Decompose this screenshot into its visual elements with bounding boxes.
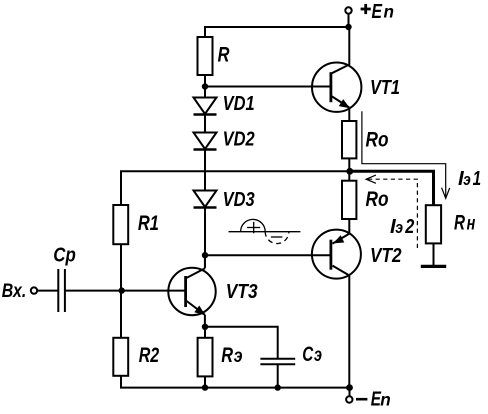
wire output node to Rn [350, 171, 434, 205]
label +En [361, 0, 394, 23]
svg-text:R: R [454, 212, 466, 235]
wire R2 bottom to rail [121, 376, 350, 388]
current arrow Ie1 [362, 111, 450, 198]
wire VT2 collector down to rail [348, 275, 350, 388]
svg-text:Ro: Ro [366, 128, 389, 151]
current arrow Ie2 dashed [366, 175, 417, 251]
svg-text:2: 2 [405, 215, 415, 238]
wire output node to Ro2 [348, 171, 350, 180]
wire node B to VT2 base [205, 254, 330, 256]
diode VD2 [194, 133, 217, 191]
capacitor Ce [260, 359, 295, 365]
wire Ro2 to VT2 emitter [348, 219, 350, 235]
diode VD1 [194, 98, 217, 133]
wire input node to R2 [120, 291, 122, 338]
wire +En node down to VT1 collector [348, 27, 350, 65]
capacitor Cp [58, 269, 65, 312]
svg-text:э: э [234, 346, 243, 367]
resistor Ro2 [342, 181, 356, 219]
svg-text:Ro: Ro [366, 188, 389, 211]
node B [202, 252, 208, 258]
wire input to VT3 base [37, 290, 58, 292]
resistor R1 [113, 205, 128, 244]
svg-text:R2: R2 [139, 344, 160, 367]
wire VT3 collector up to node B [204, 255, 206, 268]
node rail Re [202, 384, 208, 390]
label Ie2 [390, 215, 415, 238]
svg-text:э: э [314, 345, 322, 366]
resistor Rn [426, 205, 441, 243]
svg-text:VT1: VT1 [370, 77, 400, 99]
wire R bottom to node A [204, 75, 206, 98]
svg-text:n: n [380, 390, 391, 410]
terminal +En [345, 7, 351, 13]
svg-text:э: э [463, 170, 471, 189]
node rail Ce [275, 384, 281, 390]
node output junction [346, 168, 353, 175]
resistor Re [198, 338, 213, 377]
svg-text:1: 1 [473, 167, 482, 190]
terminal input [31, 287, 37, 293]
wire Ro1 to output node [348, 158, 350, 171]
label Ce [302, 343, 322, 366]
wire Re bottom to rail [204, 376, 206, 387]
ground bar under Rn [421, 265, 446, 268]
wire top horizontal from R stub to +En node [205, 27, 349, 37]
svg-text:VT2: VT2 [370, 245, 402, 267]
svg-text:R: R [221, 344, 233, 367]
svg-text:R: R [218, 44, 230, 67]
resistor R [198, 37, 213, 75]
node input junction [119, 287, 125, 293]
sine source symbol [229, 219, 301, 243]
wire VT3 emitter to emitter node [204, 315, 206, 327]
wire rail to -En terminal [349, 388, 351, 397]
svg-text:VD2: VD2 [223, 129, 255, 151]
label Re [221, 344, 242, 367]
svg-text:n: n [384, 2, 395, 22]
wire Cp to base node [65, 290, 185, 292]
svg-text:R1: R1 [138, 212, 159, 235]
wire R1 bottom to input node [120, 244, 122, 290]
terminal -En [346, 396, 352, 402]
svg-text:C: C [302, 343, 314, 366]
node rail -En [346, 384, 353, 391]
diode VD3 [194, 191, 217, 268]
wire output node horizontal [121, 171, 350, 205]
resistor Ro1 [342, 121, 356, 158]
svg-text:Cp: Cp [53, 244, 76, 267]
label Ie1 [458, 167, 481, 190]
wire VT1 emitter to Ro1 [348, 108, 350, 122]
svg-text:VD1: VD1 [223, 93, 255, 115]
svg-text:VD3: VD3 [223, 189, 255, 211]
node emitter junction [202, 324, 208, 330]
svg-text:Вх.: Вх. [2, 280, 27, 302]
wire emitter node to Re [204, 327, 206, 338]
wire Ce bottom to rail [277, 364, 279, 387]
transistor VT1 [312, 62, 361, 111]
svg-text:э: э [395, 218, 403, 237]
label Rn [454, 212, 476, 235]
resistor R2 [113, 338, 128, 376]
svg-text:E: E [372, 0, 384, 23]
wire Rn bottom to terminal bar [433, 243, 435, 265]
node A [202, 83, 208, 89]
wire emitter node to Ce [205, 327, 278, 359]
svg-text:н: н [467, 214, 476, 235]
transistor VT3 [168, 268, 215, 316]
wire +En down to top node [348, 14, 350, 27]
node top junction [345, 24, 351, 30]
wire node A to VT1 base [205, 86, 330, 88]
label -En [356, 388, 391, 411]
transistor VT2 [312, 230, 361, 279]
svg-text:VT3: VT3 [226, 281, 258, 303]
